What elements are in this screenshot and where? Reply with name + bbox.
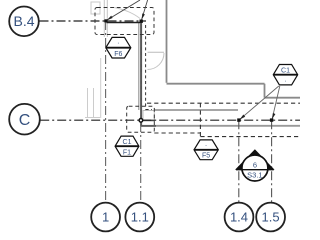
- section marker divider: [236, 169, 274, 171]
- grid line 1.4 vertical: [238, 120, 240, 202]
- wall faint vertical below F6: [100, 58, 102, 118]
- svg-text:F1: F1: [123, 149, 131, 156]
- grid line B.4 horizontal: [40, 20, 147, 22]
- svg-text:F6: F6: [114, 51, 122, 58]
- grid line 1.1 vertical: [140, 21, 142, 203]
- demo wall stub right of node3: [141, 119, 155, 121]
- grid bubble 1.1: [125, 203, 154, 232]
- wall W7 dark vertical below node2: [138, 23, 140, 110]
- section marker S3.1 triangle: [235, 149, 275, 170]
- svg-text:C1: C1: [123, 139, 132, 146]
- grid bubble C: [9, 104, 40, 135]
- svg-text:S3.1: S3.1: [247, 171, 262, 180]
- svg-text:1.4: 1.4: [230, 210, 248, 225]
- node5 square: [270, 118, 273, 121]
- svg-text:C: C: [19, 112, 31, 129]
- wall W4 horizontal to right edge: [265, 97, 301, 99]
- leader C1 to node4: [239, 86, 278, 120]
- svg-text:6: 6: [253, 160, 257, 169]
- wall W6 horizontal long: [141, 125, 300, 127]
- keynote hexagon C1 right: [273, 65, 297, 85]
- leader to node1: [107, 0, 141, 20]
- arrowhead at node2: [142, 13, 145, 19]
- grid bubble 1.5: [256, 203, 285, 232]
- svg-text:C1: C1: [281, 68, 290, 75]
- arrowhead at node4: [240, 115, 246, 120]
- grid bubble 1: [91, 203, 120, 232]
- node1 square: [104, 19, 107, 22]
- dashed demo line H at y=103: [147, 102, 300, 104]
- casework light rect in box2: [143, 111, 154, 121]
- svg-text:1: 1: [102, 210, 109, 225]
- svg-text:F5: F5: [202, 153, 210, 160]
- svg-text:1.1: 1.1: [131, 210, 149, 225]
- wall faint verticals left of grid 1: [85, 88, 100, 118]
- svg-text:B.4: B.4: [13, 13, 34, 29]
- arrowhead at node1: [107, 16, 113, 21]
- svg-text:·: ·: [284, 78, 286, 85]
- grid bubble 1.4: [225, 203, 254, 232]
- keynote hexagon F5: [194, 140, 218, 160]
- node4 square: [237, 118, 240, 121]
- grid line 1 vertical: [105, 21, 107, 203]
- leader C1 to node5: [272, 86, 280, 120]
- demo wall W8 at grid B.4: [107, 22, 141, 24]
- leader to node2: [142, 0, 148, 20]
- wall faint vertical pair at grid 1 top: [104, 0, 107, 37]
- wall W6 dark stub from node3: [141, 120, 156, 126]
- door arc in box1: [114, 8, 140, 19]
- wall W5 horizontal: [154, 109, 238, 111]
- demo scope box1 dashed: [95, 8, 154, 35]
- demo scope box2 dashed: [127, 106, 155, 132]
- wall W1 vertical right: [166, 0, 168, 83]
- svg-text:1.5: 1.5: [262, 210, 280, 225]
- keynote hexagon F6: [106, 37, 131, 58]
- dashed demo line H at y=136.6: [200, 136, 300, 138]
- grid line C horizontal: [40, 119, 300, 121]
- dashed demo line V at x=200.4: [199, 103, 201, 136]
- arrowhead at node5: [272, 113, 275, 119]
- section marker S3.1 circle: [242, 155, 268, 181]
- wall W3 vertical jog: [264, 84, 266, 98]
- wall light rect top-left: [91, 2, 100, 14]
- keynote hexagon C1/F1: [115, 136, 139, 156]
- wall W2 horizontal: [167, 83, 265, 85]
- grid bubble B.4: [9, 6, 39, 36]
- svg-text:·: ·: [117, 40, 119, 47]
- dashed demo vertical at x=145.3: [146, 25, 152, 110]
- dashed demo line H at y=133: [154, 132, 200, 134]
- grid line 1.5 vertical: [271, 120, 273, 202]
- svg-text:·: ·: [205, 142, 207, 149]
- door header and swing arc at wall W1: [148, 51, 165, 53]
- node3 ring: [139, 119, 143, 123]
- node2 square: [140, 20, 143, 23]
